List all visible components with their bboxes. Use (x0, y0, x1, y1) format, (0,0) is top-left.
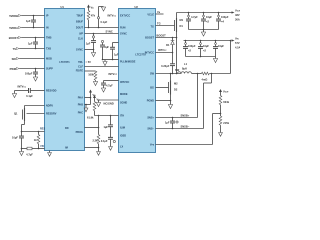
svg-text:10µF: 10µF (206, 15, 212, 19)
svg-text:SW: SW (150, 73, 155, 76)
resistor R8 604k (219, 96, 229, 114)
svg-text:10µF: 10µF (218, 44, 224, 48)
wire PGND (156, 100, 172, 105)
svg-text:1µF: 1µF (28, 41, 33, 45)
svg-text:SUPP: SUPP (46, 68, 53, 71)
node test point (97, 17, 99, 19)
svg-text:1µF: 1µF (165, 121, 170, 125)
svg-text:SYNC: SYNC (76, 49, 83, 52)
ground (213, 57, 217, 63)
svg-text:D1: D1 (180, 24, 184, 28)
wire (85, 49, 95, 51)
wire U/P to SYNC (85, 30, 119, 35)
svg-text:1µF: 1µF (26, 19, 31, 23)
svg-text:SNSB+: SNSB+ (181, 113, 190, 117)
wire IM (85, 147, 100, 149)
capacitor C17 10uF x2 (198, 41, 209, 57)
svg-text:100µF: 100µF (221, 15, 229, 19)
svg-text:RES: RES (40, 128, 45, 131)
svg-text:CLK: CLK (78, 38, 83, 41)
svg-text:LX: LX (120, 146, 124, 149)
svg-text:604k: 604k (223, 100, 229, 104)
svg-text:PHC: PHC (78, 112, 83, 115)
svg-text:0.22µF: 0.22µF (161, 64, 170, 68)
capacitor C15 100uF x4 (216, 13, 229, 30)
capacitor C12 0.22uF (161, 64, 180, 74)
wire (19, 48, 44, 50)
svg-text:RESDRV: RESDRV (46, 113, 57, 116)
capacitor C11 0.1uF (101, 137, 113, 146)
svg-text:SDI: SDI (12, 57, 17, 61)
svg-text:PHB: PHB (78, 104, 83, 107)
svg-text:FB: FB (41, 145, 45, 148)
svg-text:IM: IM (65, 147, 68, 150)
transistor Q1 (14, 106, 44, 132)
transistor M2 (169, 73, 179, 101)
svg-text:DOUT: DOUT (76, 27, 84, 30)
svg-text:TBUF: TBUF (76, 15, 83, 18)
capacitor C7 1uF (100, 43, 109, 60)
svg-text:61.9k: 61.9k (87, 115, 94, 119)
wire ITH (95, 115, 119, 117)
wire (21, 27, 44, 29)
svg-text:LTC7871: LTC7871 (59, 61, 70, 64)
ground (109, 147, 113, 151)
wire (19, 58, 44, 60)
svg-text:BOOST: BOOST (9, 36, 19, 40)
wire (15, 90, 29, 92)
svg-text:NC/GND: NC/GND (104, 101, 114, 105)
resistor R9 215k (219, 114, 229, 133)
svg-text:215k: 215k (223, 121, 229, 125)
ground (33, 77, 37, 81)
wire (21, 131, 45, 133)
wire (113, 42, 119, 44)
svg-text:4.7µF: 4.7µF (26, 152, 33, 156)
IC U1 body (45, 9, 85, 151)
svg-text:TS: TS (13, 47, 17, 51)
node VIN label (235, 37, 241, 50)
svg-text:0.1µF: 0.1µF (101, 20, 108, 24)
svg-text:= 5V: = 5V (86, 60, 92, 64)
wire BG gate (156, 87, 169, 89)
svg-text:U1: U1 (61, 5, 65, 9)
transistor M1 (175, 13, 184, 33)
svg-text:5VDDA: 5VDDA (9, 26, 18, 30)
svg-text:1µF: 1µF (114, 53, 119, 57)
svg-text:4.7µF: 4.7µF (191, 15, 198, 19)
svg-text:1µF: 1µF (105, 45, 110, 49)
capacitor C9 4.7uF (101, 81, 113, 89)
svg-text:BOOST: BOOST (157, 34, 167, 38)
wire (21, 37, 44, 39)
capacitor C19 1uF (165, 118, 178, 129)
svg-text:4.7µF: 4.7µF (106, 84, 113, 88)
capacitor C6 1uF (86, 38, 96, 50)
svg-text:0.1µF: 0.1µF (101, 139, 108, 143)
wire DOUT to RUN (85, 27, 119, 29)
svg-text:2.2k: 2.2k (92, 138, 98, 142)
svg-text:48V: 48V (235, 13, 240, 17)
capacitor C10 1uF (103, 116, 113, 138)
svg-text:TXB: TXB (46, 48, 51, 51)
svg-text:10µF: 10µF (203, 44, 209, 48)
resistor R7 4m (197, 72, 231, 81)
power VA arrow (87, 5, 94, 11)
svg-text:100k: 100k (88, 73, 94, 77)
wire (104, 80, 119, 82)
power VA arrow (89, 90, 96, 98)
svg-text:8µH: 8µH (182, 67, 187, 71)
svg-text:D2: D2 (174, 88, 178, 92)
ground (84, 104, 88, 112)
svg-text:U2: U2 (135, 5, 139, 9)
wire (186, 56, 216, 58)
svg-text:4mΩ: 4mΩ (202, 78, 208, 82)
wire (19, 68, 44, 70)
capacitor C4 0.1uF (26, 88, 44, 98)
ground (96, 103, 100, 107)
resistor R1 47k (87, 11, 95, 28)
ground (19, 149, 23, 156)
ground (91, 50, 95, 57)
svg-text:Q1: Q1 (14, 112, 18, 116)
svg-text:1µF: 1µF (103, 125, 108, 129)
svg-text:INTVCC: INTVCC (145, 52, 155, 55)
svg-text:M1: M1 (180, 18, 184, 22)
svg-text:5VDDB: 5VDDB (9, 14, 18, 18)
ground (201, 30, 205, 37)
IC U2 body (119, 9, 156, 153)
svg-text:BG: BG (150, 87, 154, 90)
svg-text:0.1µF: 0.1µF (26, 94, 33, 98)
ground (97, 152, 101, 156)
svg-text:PHA: PHA (78, 97, 83, 100)
svg-text:PGND: PGND (147, 100, 154, 103)
wire (21, 148, 45, 150)
wire (85, 97, 92, 105)
ground (219, 133, 223, 137)
resistor R3 (27, 147, 32, 150)
svg-text:FD/FE: FD/FE (76, 70, 84, 73)
svg-text:100µF: 100µF (25, 72, 33, 76)
capacitor C16 100uF x2 (183, 41, 196, 57)
svg-text:1µF: 1µF (86, 42, 91, 46)
svg-text:57V: 57V (235, 41, 240, 45)
svg-text:SGND: SGND (120, 102, 127, 105)
capacitor C2 1uF (28, 37, 38, 50)
svg-text:MODE: MODE (120, 93, 128, 96)
svg-text:MOB: MOB (46, 58, 52, 61)
svg-text:4.5A: 4.5A (235, 46, 240, 50)
svg-text:100µF: 100µF (188, 44, 196, 48)
svg-text:VCLE: VCLE (147, 13, 154, 16)
wire (230, 41, 232, 74)
svg-text:PWM: PWM (10, 67, 16, 71)
capacitor C18 10uF (213, 41, 224, 57)
svg-text:BBUF: BBUF (76, 21, 83, 24)
ground (48, 151, 52, 157)
inductor L1 8uH (178, 62, 202, 74)
ground (12, 91, 16, 98)
wire SNS+ (156, 74, 198, 119)
capacitor C8 1uF (110, 43, 119, 60)
ground (93, 80, 97, 85)
wire M1 source / BOOST (156, 32, 178, 74)
svg-text:PROG: PROG (76, 131, 83, 134)
wire (85, 97, 91, 99)
svg-text:30A: 30A (235, 18, 240, 22)
ground (101, 88, 105, 92)
svg-text:SW: SW (175, 68, 180, 72)
node VOUT label (235, 9, 241, 22)
svg-text:U/P: U/P (79, 33, 84, 36)
ground (99, 7, 106, 17)
svg-text:D1: D1 (166, 43, 170, 47)
wire PGND (99, 100, 119, 105)
wire VIN rail (184, 39, 235, 41)
wire SW (156, 73, 182, 75)
wire CLF to PLLIN (85, 66, 119, 68)
svg-text:IP: IP (46, 15, 49, 18)
svg-text:SYNC: SYNC (120, 33, 127, 36)
resistor R4 100k (88, 71, 97, 80)
node test point (113, 140, 115, 142)
capacitor C3 100uF (25, 68, 38, 77)
ground (168, 105, 172, 109)
resistor R10 2.2k (92, 135, 99, 152)
wire cap return rail (189, 29, 219, 31)
svg-text:TG: TG (157, 22, 161, 26)
wire (85, 70, 96, 72)
node test point (101, 40, 103, 42)
svg-text:SNSB−: SNSB− (181, 124, 190, 128)
capacitor C1 1uF (26, 15, 36, 29)
svg-text:10µF: 10µF (12, 136, 18, 140)
wire (21, 15, 44, 17)
power VOUT arrow (219, 89, 229, 96)
wire (102, 59, 119, 61)
capacitor C5 10uF (12, 132, 24, 149)
svg-text:PLLIN/MODE: PLLIN/MODE (120, 61, 136, 64)
svg-text:IOSD: IOSD (120, 135, 126, 138)
svg-text:ILIM: ILIM (120, 127, 125, 130)
svg-text:NDRV: NDRV (46, 105, 53, 108)
power VA arrow (93, 95, 100, 102)
capacitor C14 10uF x2 (201, 13, 212, 30)
svg-text:TRL: TRL (78, 61, 83, 64)
diode D1 (166, 38, 174, 53)
svg-text:M2: M2 (174, 82, 178, 86)
svg-text:CLF: CLF (78, 66, 83, 69)
wire (98, 19, 100, 28)
svg-text:RESVDD: RESVDD (46, 90, 57, 93)
svg-text:VFB: VFB (150, 144, 155, 147)
svg-text:SNS+: SNS+ (147, 117, 154, 120)
resistor R2 1k (34, 132, 40, 149)
svg-text:TG: TG (151, 26, 155, 29)
svg-text:INTVCC: INTVCC (120, 81, 130, 84)
capacitor C13 4.7uF (186, 13, 198, 30)
node test point (92, 34, 94, 39)
svg-text:DD: DD (65, 127, 69, 130)
resistor R5 61.9k (87, 102, 96, 120)
wire (25, 105, 45, 107)
svg-text:IN: IN (46, 27, 49, 30)
svg-text:ITH: ITH (120, 115, 124, 118)
svg-text:EXTVCC: EXTVCC (120, 15, 130, 18)
svg-text:RUN: RUN (120, 27, 126, 30)
ground (103, 60, 107, 66)
wire VOUT rail (177, 11, 235, 13)
wire TG gate (156, 25, 175, 27)
wire VFB (156, 113, 222, 145)
node VA label (156, 10, 164, 14)
wire DD (85, 116, 100, 135)
wire INTVCC (156, 48, 174, 64)
svg-text:BOOST: BOOST (145, 37, 154, 40)
svg-text:SYNC: SYNC (106, 30, 113, 34)
svg-text:TMB: TMB (46, 37, 52, 40)
svg-text:SNS−: SNS− (147, 128, 154, 131)
svg-text:47k: 47k (91, 14, 96, 18)
wire SNS- (156, 74, 212, 130)
